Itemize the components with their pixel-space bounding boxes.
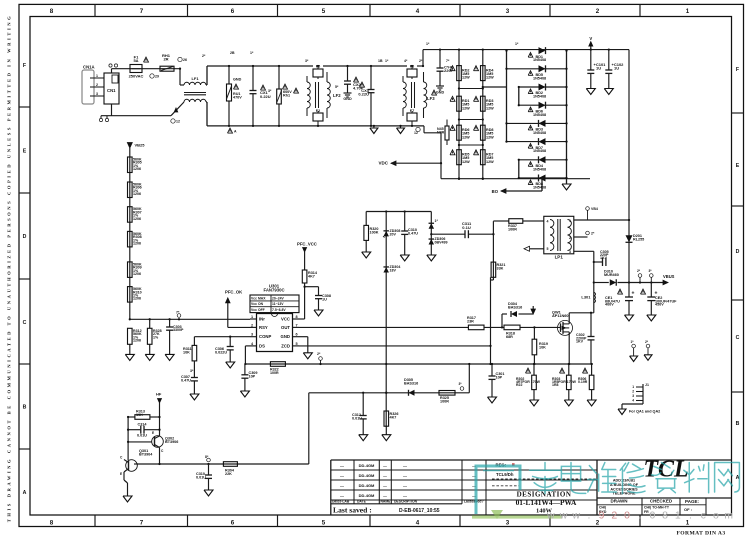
svg-text:1206: 1206 — [133, 167, 141, 171]
svg-text:F: F — [736, 67, 739, 73]
svg-text:0.22U: 0.22U — [260, 94, 271, 99]
svg-text:18V: 18V — [390, 268, 397, 272]
svg-text:33K: 33K — [497, 267, 504, 271]
svg-text:NAME: NAME — [381, 500, 392, 504]
svg-text:DRAWN: DRAWN — [611, 499, 628, 504]
svg-text:GND: GND — [281, 334, 290, 339]
svg-text:For QA1 and QA2: For QA1 and QA2 — [629, 410, 660, 414]
svg-text:BO: BO — [492, 189, 499, 194]
svg-text:3*: 3* — [459, 382, 463, 386]
svg-text:7: 7 — [295, 323, 297, 327]
svg-text:12W: 12W — [462, 160, 470, 164]
svg-text:0.47U: 0.47U — [408, 232, 418, 236]
svg-text:3: 3 — [251, 333, 253, 337]
svg-text:AP11N60: AP11N60 — [552, 313, 569, 318]
svg-text:C: C — [120, 456, 123, 460]
svg-text:BAS316: BAS316 — [404, 382, 418, 386]
svg-text:DD-4GM: DD-4GM — [359, 473, 375, 478]
svg-text:100K: 100K — [370, 231, 379, 235]
svg-text:OUT: OUT — [281, 325, 290, 330]
svg-text:w: w — [571, 510, 580, 522]
svg-text:400V: 400V — [605, 303, 614, 307]
svg-text:2*: 2* — [202, 54, 206, 58]
svg-text:VB4: VB4 — [591, 207, 598, 211]
svg-text:ACCESSORIES: ACCESSORIES — [610, 487, 638, 491]
svg-text:Vcc OFF: Vcc OFF — [251, 308, 265, 312]
svg-text:8: 8 — [295, 315, 297, 319]
svg-text:0: 0 — [649, 510, 655, 522]
svg-text:7: 7 — [140, 519, 144, 526]
svg-text:1N5408: 1N5408 — [533, 113, 546, 117]
svg-text:Rh1: Rh1 — [283, 94, 290, 98]
svg-text:VB25: VB25 — [135, 143, 146, 148]
svg-text:CN1: CN1 — [107, 88, 116, 93]
svg-text:1*: 1* — [426, 42, 430, 46]
svg-text:C: C — [23, 320, 27, 326]
svg-text:PAGE:: PAGE: — [685, 499, 699, 504]
svg-text:E: E — [120, 472, 123, 476]
svg-text:LP1: LP1 — [555, 255, 564, 260]
svg-text:4: 4 — [547, 220, 549, 224]
svg-text:1206: 1206 — [133, 272, 141, 276]
svg-text:.: . — [587, 510, 590, 522]
svg-text:1N5408: 1N5408 — [533, 131, 546, 135]
svg-text:GND: GND — [436, 91, 445, 95]
svg-text:26: 26 — [183, 58, 187, 62]
svg-text:4*: 4* — [404, 59, 408, 63]
svg-text:10K: 10K — [136, 413, 143, 417]
svg-text:—: — — [383, 484, 387, 488]
svg-text:E: E — [736, 163, 740, 169]
svg-text:4: 4 — [416, 8, 420, 15]
svg-text:12W: 12W — [462, 76, 470, 80]
svg-text:1: 1 — [675, 510, 681, 522]
svg-text:DD-4GM: DD-4GM — [359, 463, 375, 468]
svg-text:450V: 450V — [655, 303, 664, 307]
svg-text:10P: 10P — [249, 375, 256, 379]
svg-text:100R: 100R — [440, 400, 449, 404]
svg-text:w: w — [559, 510, 568, 522]
svg-text:BT3904: BT3904 — [139, 453, 153, 457]
svg-text:HF: HF — [156, 392, 162, 397]
svg-text:100R: 100R — [270, 371, 279, 375]
svg-text:1: 1 — [569, 219, 571, 223]
svg-text:C: C — [161, 449, 164, 453]
svg-text:Vcc ON: Vcc ON — [251, 302, 264, 306]
svg-text:2: 2 — [611, 510, 617, 522]
svg-text:1206: 1206 — [133, 297, 141, 301]
svg-text:1*: 1* — [435, 219, 439, 223]
svg-text:+: + — [632, 291, 635, 297]
svg-text:0.19R: 0.19R — [578, 380, 588, 384]
svg-text:3*: 3* — [305, 59, 309, 63]
svg-text:8: 8 — [50, 8, 54, 15]
svg-text:20~24V: 20~24V — [272, 296, 284, 300]
svg-text:22K: 22K — [225, 472, 232, 476]
svg-text:BAS316: BAS316 — [508, 306, 522, 310]
svg-text:GND: GND — [343, 97, 352, 101]
svg-text:4: 4 — [632, 399, 634, 403]
svg-text:10P: 10P — [496, 376, 503, 380]
svg-text:12W: 12W — [486, 160, 494, 164]
svg-text:1206: 1206 — [133, 339, 141, 343]
svg-text:1KV: 1KV — [600, 256, 608, 260]
svg-text:4K7: 4K7 — [308, 275, 315, 279]
svg-text:1: 1 — [632, 385, 634, 389]
svg-text:1B: 1B — [378, 59, 383, 63]
svg-text:1: 1 — [686, 8, 690, 15]
svg-text:3: 3 — [96, 92, 98, 96]
svg-text:0: 0 — [624, 510, 630, 522]
svg-text:FAN7930C: FAN7930C — [263, 288, 284, 293]
svg-text:ZCD: ZCD — [281, 343, 290, 348]
svg-text:12W: 12W — [462, 135, 470, 139]
svg-text:—: — — [403, 473, 407, 478]
svg-text:.: . — [689, 510, 692, 522]
svg-text:VDC: VDC — [378, 160, 388, 165]
svg-text:3*: 3* — [190, 369, 194, 373]
svg-text:2*: 2* — [591, 232, 595, 236]
svg-text:THIS DRAWING CANNOT BE COMMUNI: THIS DRAWING CANNOT BE COMMUNICATED TO U… — [7, 14, 12, 523]
svg-text:DATE: DATE — [357, 500, 367, 504]
svg-text:GND: GND — [233, 78, 242, 82]
svg-text:PFC_OK: PFC_OK — [225, 290, 243, 295]
svg-text:—: — — [340, 483, 344, 488]
svg-text:D: D — [736, 249, 740, 255]
svg-text:1N5408: 1N5408 — [533, 95, 546, 99]
svg-text:1N5408: 1N5408 — [533, 167, 546, 171]
svg-text:3300P: 3300P — [173, 328, 184, 332]
svg-text:m: m — [724, 510, 733, 522]
svg-text:1U: 1U — [614, 66, 619, 71]
svg-text:PFC_VCC: PFC_VCC — [297, 242, 317, 247]
svg-text:2: 2 — [632, 390, 634, 394]
svg-text:CN1A: CN1A — [83, 65, 95, 70]
svg-text:—: — — [340, 473, 344, 478]
svg-text:o: o — [713, 510, 719, 522]
svg-text:Last saved :: Last saved : — [333, 505, 372, 514]
svg-text:1*: 1* — [250, 51, 254, 55]
svg-text:CHECKED: CHECKED — [650, 499, 673, 504]
svg-text:1206: 1206 — [133, 242, 141, 246]
svg-text:0.47U: 0.47U — [181, 379, 191, 383]
svg-text:LF3: LF3 — [427, 96, 435, 101]
svg-text:—: — — [403, 463, 407, 468]
svg-text:1%: 1% — [153, 335, 159, 339]
svg-text:E: E — [152, 431, 155, 435]
svg-text:5: 5 — [322, 8, 326, 15]
svg-text:10K: 10K — [539, 346, 546, 350]
svg-text:4K7: 4K7 — [390, 416, 397, 420]
svg-text:DD-4GM: DD-4GM — [359, 493, 375, 498]
svg-text:2: 2 — [251, 323, 253, 327]
svg-text:6: 6 — [231, 519, 235, 526]
svg-text:DESCRIPTION: DESCRIPTION — [394, 500, 418, 504]
svg-text:—: — — [383, 464, 387, 468]
svg-text:12: 12 — [414, 131, 418, 135]
svg-text:4: 4 — [416, 519, 420, 526]
svg-text:470V: 470V — [233, 96, 242, 100]
svg-text:2: 2 — [569, 236, 571, 240]
svg-text:12W: 12W — [486, 135, 494, 139]
svg-text:12: 12 — [176, 120, 180, 124]
svg-text:100R: 100R — [508, 228, 517, 232]
svg-text:Vcc MAX: Vcc MAX — [251, 296, 266, 300]
svg-text:3: 3 — [506, 8, 510, 15]
svg-text:5*: 5* — [335, 85, 339, 89]
svg-text:68R: 68R — [506, 335, 513, 339]
svg-text:1*: 1* — [515, 42, 519, 46]
svg-text:23R: 23R — [467, 320, 474, 324]
svg-text:5: 5 — [295, 342, 297, 346]
svg-text:B: B — [23, 405, 27, 411]
svg-text:1: 1 — [96, 74, 98, 78]
svg-text:1N5408: 1N5408 — [533, 58, 546, 62]
svg-text:w: w — [546, 510, 555, 522]
svg-text:250VAC: 250VAC — [129, 74, 144, 79]
svg-text:A: A — [23, 490, 27, 496]
svg-text:8: 8 — [50, 519, 54, 526]
svg-text:8: 8 — [662, 510, 668, 522]
svg-text:.: . — [638, 510, 641, 522]
svg-text:1*: 1* — [385, 59, 389, 63]
svg-text:MUR460: MUR460 — [604, 273, 619, 277]
svg-text:Dates-LAB: Dates-LAB — [332, 500, 350, 504]
svg-text:2*: 2* — [637, 269, 641, 273]
svg-text:01-L141W4—PWA: 01-L141W4—PWA — [516, 498, 577, 507]
svg-text:C314: C314 — [138, 423, 148, 427]
svg-text:—: — — [340, 463, 344, 468]
svg-text:0.01U: 0.01U — [352, 417, 362, 421]
svg-text:2: 2 — [596, 8, 600, 15]
svg-text:12W: 12W — [486, 106, 494, 110]
svg-text:B: B — [736, 421, 740, 427]
svg-text:Last/saved?: Last/saved? — [464, 500, 484, 504]
svg-text:—: — — [383, 474, 387, 478]
svg-text:1N5408: 1N5408 — [533, 149, 546, 153]
svg-text:20V: 20V — [390, 232, 397, 236]
svg-text:J1: J1 — [645, 383, 649, 387]
svg-text:1U: 1U — [596, 66, 601, 71]
svg-text:—: — — [383, 494, 387, 498]
svg-text:C: C — [736, 335, 740, 341]
svg-text:1*: 1* — [631, 340, 635, 344]
svg-text:7.5~8.8V: 7.5~8.8V — [272, 308, 286, 312]
svg-text:5: 5 — [547, 247, 549, 251]
svg-text:0.01U: 0.01U — [137, 434, 147, 438]
svg-text:12W: 12W — [462, 106, 470, 110]
svg-text:D: D — [23, 234, 27, 240]
svg-text:0.022U: 0.022U — [215, 351, 227, 355]
svg-text:A: A — [234, 130, 237, 134]
svg-text:RL255: RL255 — [633, 238, 644, 242]
svg-text:ADD:23/F,B1: ADD:23/F,B1 — [613, 479, 635, 483]
svg-text:2B: 2B — [230, 51, 235, 55]
svg-text:DS: DS — [259, 343, 265, 348]
svg-text:1U: 1U — [322, 298, 327, 302]
svg-text:c: c — [701, 510, 706, 522]
svg-text:6: 6 — [295, 333, 297, 337]
svg-text:F: F — [23, 63, 26, 69]
svg-text:L301: L301 — [581, 295, 591, 300]
svg-text:0BV499: 0BV499 — [435, 240, 448, 244]
svg-text:7*: 7* — [446, 59, 450, 63]
svg-text:0.1U: 0.1U — [462, 225, 471, 230]
svg-text:3*: 3* — [268, 89, 272, 93]
svg-text:9: 9 — [599, 510, 605, 522]
svg-text:1206: 1206 — [133, 192, 141, 196]
svg-text:D-EB-0617_10:55: D-EB-0617_10:55 — [399, 508, 440, 514]
svg-text:2*: 2* — [645, 340, 649, 344]
svg-text:11~13V: 11~13V — [272, 302, 284, 306]
svg-text:29: 29 — [155, 75, 159, 79]
svg-text:R22: R22 — [516, 383, 522, 387]
svg-text:VCC: VCC — [281, 316, 290, 321]
svg-text:V: V — [589, 36, 592, 41]
svg-text:1: 1 — [251, 315, 253, 319]
svg-text:FORMAT DIN A3: FORMAT DIN A3 — [676, 531, 725, 537]
svg-text:—: — — [403, 483, 407, 488]
svg-text:VBUS: VBUS — [663, 274, 675, 279]
svg-text:3: 3 — [506, 519, 510, 526]
svg-text:2R: 2R — [163, 57, 168, 62]
svg-text:2*: 2* — [419, 59, 423, 63]
svg-text:5A: 5A — [133, 58, 138, 63]
svg-text:2*: 2* — [317, 352, 321, 356]
svg-text:CONP: CONP — [259, 334, 271, 339]
svg-text:3: 3 — [569, 250, 571, 254]
svg-text:LF1: LF1 — [191, 76, 199, 81]
svg-text:TCL9/Dh: TCL9/Dh — [496, 472, 514, 477]
svg-text:1206: 1206 — [133, 217, 141, 221]
svg-text:3: 3 — [632, 394, 634, 398]
svg-text:—: — — [340, 493, 344, 498]
svg-text:LF2: LF2 — [333, 93, 341, 98]
svg-text:6: 6 — [231, 8, 235, 15]
svg-text:0.22U: 0.22U — [358, 92, 369, 97]
svg-text:BT3906: BT3906 — [165, 440, 178, 444]
svg-text:4: 4 — [251, 342, 254, 346]
svg-text:RSY: RSY — [259, 325, 268, 330]
svg-text:—: — — [403, 493, 407, 498]
svg-text:12W: 12W — [486, 76, 494, 80]
svg-text:7: 7 — [140, 8, 144, 15]
svg-text:1N5408: 1N5408 — [533, 76, 546, 80]
svg-text:E: E — [23, 148, 27, 154]
svg-text:1N5408: 1N5408 — [533, 186, 546, 190]
svg-text:2: 2 — [96, 83, 98, 87]
svg-text:10K: 10K — [183, 351, 190, 355]
svg-text:INr: INr — [259, 316, 265, 321]
svg-text:0.01U: 0.01U — [196, 476, 206, 480]
svg-text:DD-4GM: DD-4GM — [359, 483, 375, 488]
svg-text:5: 5 — [322, 519, 326, 526]
svg-text:1R8: 1R8 — [552, 383, 558, 387]
svg-text:1KV: 1KV — [576, 340, 584, 344]
svg-text:3*: 3* — [649, 269, 653, 273]
